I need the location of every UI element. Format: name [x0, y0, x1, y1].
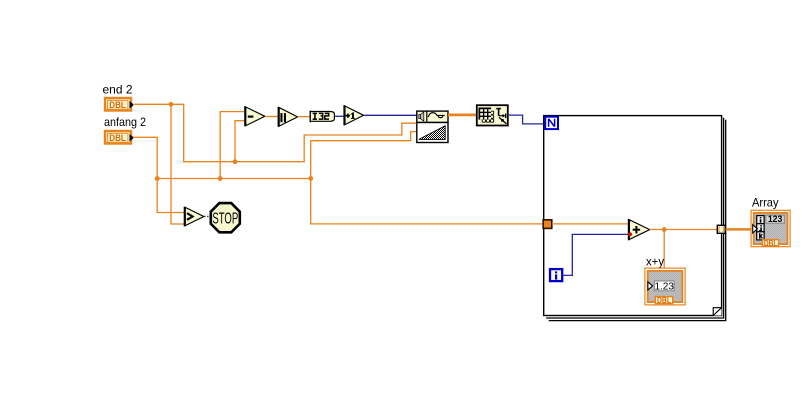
increment +1 node [344, 105, 364, 125]
indicator Array (1-D DBL array) [751, 210, 790, 248]
svg-text:DBL: DBL [109, 100, 126, 110]
wire end2 main run to ramp input 1 [133, 104, 417, 161]
junction dot end2 at (171,104) [169, 102, 174, 107]
label end 2 [103, 83, 133, 97]
iteration terminal i [550, 269, 562, 281]
wire anfang2 branch to comparator upper input [157, 179, 184, 213]
left tunnel (orange) [543, 220, 552, 229]
coercion dot at add lower input [628, 232, 632, 236]
svg-text:DBL: DBL [109, 133, 126, 143]
wire increment to ramp pattern [364, 114, 417, 116]
junction dot end2 at (235,162) [233, 159, 238, 164]
array wire ramp to array-size [448, 114, 477, 117]
wire end2 branch up to subtract lower input [235, 121, 245, 162]
right tunnel (auto-indexing) [717, 225, 725, 233]
loop count terminal N [545, 117, 558, 129]
svg-text:anfang 2: anfang 2 [104, 115, 146, 129]
wire anfang2 branch to ramp input 2 [311, 132, 417, 179]
svg-text:DBL: DBL [657, 296, 671, 305]
wire abs to I32 [298, 116, 310, 118]
control terminal end 2 (DBL) [105, 98, 134, 111]
indicator x+y (DBL) [645, 268, 685, 305]
for loop border [544, 116, 726, 321]
svg-text:DBL: DBL [764, 239, 778, 248]
wire anfang2 main run [133, 137, 544, 224]
absolute value node [278, 107, 297, 127]
svg-text:x+y: x+y [646, 254, 664, 268]
to-I32 conversion node [310, 111, 334, 123]
array size node [477, 105, 508, 125]
wire branch down to x+y indicator [663, 230, 665, 269]
wire array-size to N terminal [508, 115, 544, 124]
subtract node [245, 106, 265, 126]
label x+y [646, 254, 664, 268]
svg-text:end 2: end 2 [103, 83, 133, 97]
comparator greater-than node [184, 207, 203, 227]
svg-text:123: 123 [768, 214, 783, 224]
wire anfang2 branch up to subtract upper input [220, 112, 245, 179]
boolean wire comparator to STOP [204, 216, 210, 218]
svg-text:1.23: 1.23 [654, 281, 674, 292]
svg-text:STOP: STOP [212, 210, 238, 227]
add node [629, 219, 650, 240]
wire subtract to abs [265, 116, 278, 118]
control terminal anfang 2 (DBL) [105, 131, 134, 144]
junction dot anfang2 at (157,178) [155, 176, 160, 181]
wire i to add lower input [563, 234, 629, 275]
STOP button terminal (octagon) [211, 203, 240, 232]
label anfang 2 [104, 115, 146, 129]
wire I32 to increment [334, 115, 344, 117]
junction dot add output [662, 227, 667, 232]
wire tunnel to add [552, 223, 628, 225]
junction dot anfang2 at (311,178) [308, 176, 313, 181]
label Array [752, 195, 779, 209]
wire add output to right tunnel [650, 229, 717, 231]
wire end2 branch down to comparator lower input [171, 104, 185, 224]
array wire tunnel to Array indicator [726, 228, 753, 231]
svg-text:Array: Array [752, 195, 779, 209]
junction dot anfang2 at (220,178) [218, 176, 223, 181]
ramp pattern VI icon [417, 111, 448, 142]
